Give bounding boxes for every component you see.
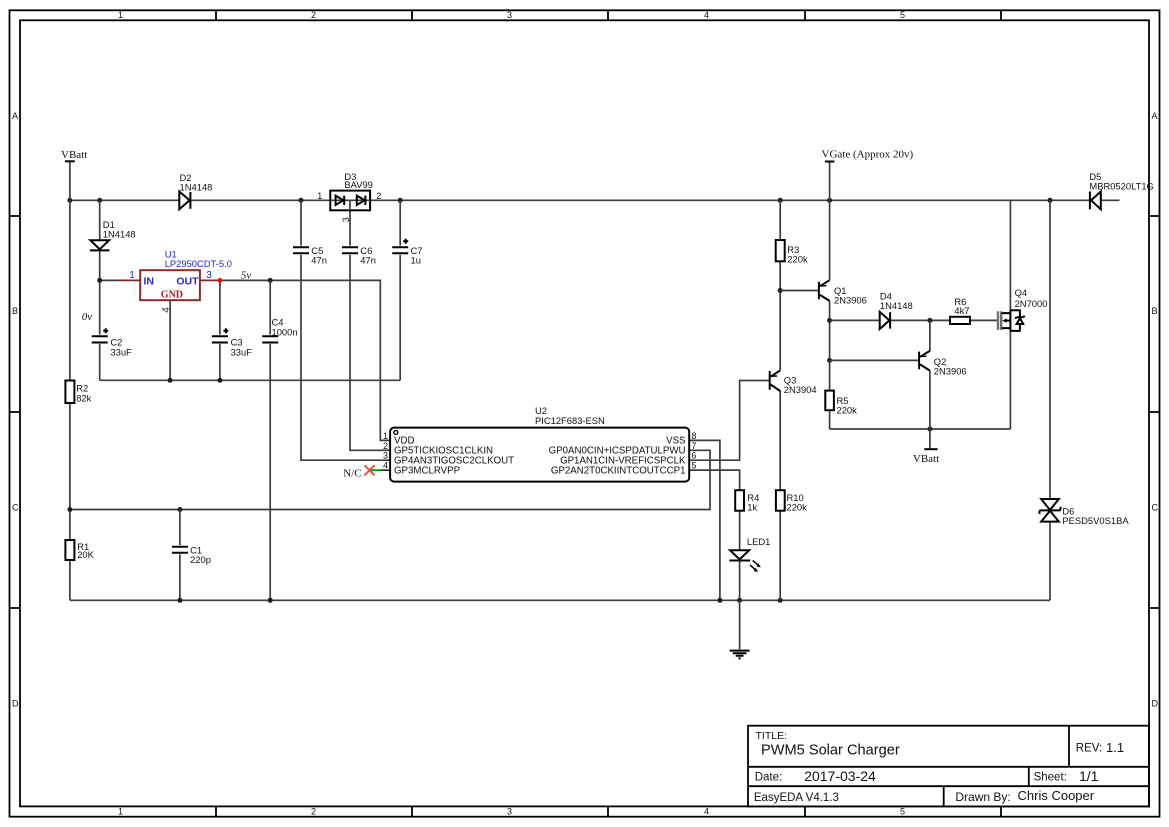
wire C7 branch <box>399 200 401 380</box>
svg-text:4: 4 <box>704 807 709 817</box>
wire C1 branch <box>179 510 181 601</box>
svg-text:2: 2 <box>311 10 316 20</box>
led LED1 <box>729 536 770 572</box>
svg-text:C: C <box>12 503 19 513</box>
wire C5 branch to U2 pin3 <box>301 200 390 460</box>
svg-text:Sheet:: Sheet: <box>1034 772 1067 784</box>
svg-text:1u: 1u <box>411 254 421 265</box>
svg-text:1: 1 <box>118 10 123 20</box>
svg-text:33uF: 33uF <box>231 346 253 357</box>
capacitor C7 1u <box>392 239 422 266</box>
wire Q4 drain riser <box>1009 200 1011 312</box>
wire U2 pin8 VSS drop <box>689 440 720 600</box>
svg-text:D: D <box>1152 699 1159 709</box>
svg-text:3: 3 <box>341 217 351 222</box>
resistor R1 20K <box>65 540 94 560</box>
wire VGate stem <box>829 162 831 201</box>
svg-text:6: 6 <box>691 451 696 461</box>
svg-text:TITLE:: TITLE: <box>756 730 788 742</box>
resistor R5 220k <box>825 391 857 416</box>
node Q2 base tap <box>827 358 832 363</box>
svg-text:8: 8 <box>691 431 696 441</box>
wire 0v mid rail <box>100 379 401 381</box>
node dots mid rail <box>168 378 223 383</box>
svg-text:VBatt: VBatt <box>61 149 87 161</box>
capacitor C6 47n <box>342 245 376 266</box>
svg-text:1: 1 <box>129 270 135 281</box>
wire Q1 base <box>780 290 819 292</box>
svg-text:1: 1 <box>317 191 322 201</box>
svg-text:1N4148: 1N4148 <box>103 229 136 240</box>
no-connect flag on U2 pin4 <box>365 466 390 475</box>
node dots bottom rail <box>177 598 782 603</box>
net flag VGate <box>822 149 914 162</box>
node C4 tap on 5v <box>268 278 273 283</box>
transistor Q3 2N3904 <box>770 370 817 394</box>
svg-text:C: C <box>1152 503 1159 513</box>
svg-text:IN: IN <box>144 275 155 287</box>
svg-text:VBatt: VBatt <box>913 453 939 465</box>
wire D1 branch <box>99 200 101 380</box>
svg-text:220k: 220k <box>787 501 808 512</box>
node Q2 emitter junction <box>927 318 932 323</box>
wire VBatt lower rail <box>830 428 1011 430</box>
svg-text:GP3MCLRVPP: GP3MCLRVPP <box>394 465 460 476</box>
svg-text:82k: 82k <box>76 392 91 403</box>
svg-text:4: 4 <box>704 10 709 20</box>
wire C3 branch <box>219 280 221 380</box>
resistor R6 4k7 <box>950 296 970 324</box>
resistor R4 1k <box>735 490 759 512</box>
svg-text:7: 7 <box>691 441 696 451</box>
svg-text:Date:: Date: <box>755 772 783 784</box>
IC U2 PIC12F683-ESN <box>383 405 696 482</box>
net flag VBatt bottom <box>913 449 939 465</box>
wire R4 to LED1 <box>739 511 741 550</box>
mosfet Q4 2N7000 <box>998 287 1047 331</box>
svg-text:2N3906: 2N3906 <box>934 366 967 377</box>
svg-text:BAV99: BAV99 <box>344 179 373 190</box>
svg-text:2: 2 <box>311 807 316 817</box>
svg-text:B: B <box>1152 306 1158 316</box>
wire left branch R2-R1 <box>69 200 71 600</box>
TITLEBLOCK <box>748 726 1149 807</box>
svg-text:5: 5 <box>691 461 696 471</box>
svg-text:1N4148: 1N4148 <box>180 181 213 192</box>
tvs diode D6 PESD5V0S1BA <box>1040 499 1130 526</box>
svg-text:1.1: 1.1 <box>1106 740 1124 755</box>
wire Q3 emitter to R10 to rail <box>779 391 781 600</box>
wire VBatt flag stem bottom <box>929 429 931 449</box>
svg-text:Q4: Q4 <box>1015 287 1028 298</box>
svg-text:MBR0520LT1G: MBR0520LT1G <box>1089 181 1153 192</box>
net flag VBatt top left <box>61 149 87 161</box>
svg-text:LED1: LED1 <box>747 536 770 547</box>
svg-text:Chris Cooper: Chris Cooper <box>1018 788 1095 803</box>
svg-text:2N3906: 2N3906 <box>834 294 867 305</box>
wire C6 branch to U2 pin2 <box>350 210 390 450</box>
wire R5 branch <box>829 360 831 429</box>
svg-text:2N7000: 2N7000 <box>1015 298 1048 309</box>
svg-text:A: A <box>12 111 18 121</box>
node junction dots on top rail <box>67 198 1052 203</box>
wire U1 input <box>100 279 121 281</box>
node D4 tap <box>827 318 832 323</box>
transistor Q2 2N3906 <box>919 351 967 377</box>
wire R6 to Q4 gate <box>970 319 997 321</box>
svg-text:3: 3 <box>383 451 388 461</box>
wire R3 branch <box>779 200 781 290</box>
svg-text:Drawn By:: Drawn By: <box>955 790 1010 804</box>
diode D4 1N4148 <box>880 290 913 329</box>
svg-text:1N4148: 1N4148 <box>880 300 913 311</box>
wire D6 branch <box>1049 200 1051 600</box>
wire D4 cathode to R6 <box>890 319 950 321</box>
svg-text:VGate (Approx 20v): VGate (Approx 20v) <box>822 149 914 161</box>
wire bottom ground rail <box>70 599 1050 601</box>
capacitor C2 33uF <box>92 328 132 357</box>
wire 5v net to U2 VDD <box>220 280 390 440</box>
svg-text:2N3904: 2N3904 <box>784 384 817 395</box>
svg-text:REV:: REV: <box>1076 742 1102 754</box>
wire Q3 collector riser <box>779 291 781 371</box>
svg-text:47n: 47n <box>360 254 376 265</box>
resistor R3 220k <box>776 240 808 264</box>
wire Q2 base <box>830 359 920 361</box>
svg-text:220k: 220k <box>837 405 858 416</box>
svg-text:1k: 1k <box>747 501 757 512</box>
svg-text:2: 2 <box>376 191 381 201</box>
PARTS <box>61 149 1154 659</box>
svg-text:N/C: N/C <box>343 467 361 479</box>
svg-text:5: 5 <box>900 807 905 817</box>
svg-text:2017-03-24: 2017-03-24 <box>804 768 876 784</box>
svg-text:220k: 220k <box>787 253 808 264</box>
ground symbol <box>730 651 750 659</box>
wire VBatt top rail <box>70 199 1120 201</box>
svg-text:0v: 0v <box>82 311 93 323</box>
diode pair D3 BAV99 <box>317 171 381 222</box>
svg-text:5: 5 <box>900 10 905 20</box>
capacitor C3 33uF <box>212 328 252 357</box>
svg-text:220p: 220p <box>190 554 211 565</box>
wire ground stub <box>739 600 741 650</box>
svg-text:PESD5V0S1BA: PESD5V0S1BA <box>1062 515 1129 526</box>
wire U2 pin6 to Q3 base <box>689 381 770 461</box>
svg-text:1: 1 <box>383 431 388 441</box>
capacitor C5 47n <box>293 245 327 266</box>
svg-text:EasyEDA V4.1.3: EasyEDA V4.1.3 <box>754 792 839 804</box>
wire U2 pin5 to R4 <box>689 470 739 490</box>
node dots pin7 net <box>67 507 182 512</box>
svg-text:4: 4 <box>383 461 388 471</box>
svg-text:3: 3 <box>507 807 512 817</box>
svg-text:3: 3 <box>206 270 212 281</box>
wire Q4 source drop <box>1009 329 1011 429</box>
wire VBatt flag stem left <box>69 161 71 200</box>
capacitor C4 1000n <box>262 316 297 342</box>
wire LED1 to ground rail <box>739 561 741 600</box>
node Q3/R3/Q1 base junction <box>778 288 783 293</box>
node VBatt flag tap <box>927 427 932 432</box>
svg-text:4k7: 4k7 <box>954 305 969 316</box>
resistor R10 220k <box>776 490 807 512</box>
svg-text:2: 2 <box>383 441 388 451</box>
svg-text:33uF: 33uF <box>110 346 132 357</box>
svg-text:D: D <box>12 699 19 709</box>
diode D5 MBR0520LT1G <box>1089 171 1153 209</box>
svg-text:1000n: 1000n <box>272 326 298 337</box>
transistor Q1 2N3906 <box>819 280 867 305</box>
svg-text:1: 1 <box>118 807 123 817</box>
wire C4 branch <box>269 280 271 600</box>
svg-text:3: 3 <box>507 10 512 20</box>
wire D4 anode <box>830 319 880 321</box>
svg-text:20K: 20K <box>77 549 94 560</box>
wire Q2 emitter riser <box>929 320 931 351</box>
svg-text:5v: 5v <box>241 269 252 281</box>
resistor R2 82k <box>65 381 91 404</box>
svg-text:LP2950CDT-5.0: LP2950CDT-5.0 <box>165 258 232 269</box>
svg-text:OUT: OUT <box>176 275 199 287</box>
node IN junction <box>97 278 102 283</box>
capacitor C1 220p <box>172 545 211 566</box>
svg-text:A: A <box>1152 111 1158 121</box>
wire Q1 collector to D4 node <box>829 301 831 361</box>
svg-text:B: B <box>12 306 18 316</box>
svg-text:GND: GND <box>161 290 183 301</box>
svg-text:47n: 47n <box>311 254 327 265</box>
wire Q2 collector drop <box>929 371 931 429</box>
svg-text:PWM5 Solar Charger: PWM5 Solar Charger <box>761 742 900 758</box>
svg-text:4: 4 <box>161 307 172 313</box>
svg-text:GP2AN2T0CKIINTCOUTCCP1: GP2AN2T0CKIINTCOUTCCP1 <box>551 465 686 476</box>
diode D1 1N4148 <box>90 219 136 250</box>
svg-text:PIC12F683-ESN: PIC12F683-ESN <box>535 415 605 426</box>
svg-text:1/1: 1/1 <box>1079 768 1099 784</box>
wire U2 pin7 long return <box>70 450 710 509</box>
wire Q1 emitter riser <box>829 200 831 280</box>
diode D2 1N4148 <box>179 172 212 210</box>
wire U1 GND pin4 drop <box>169 300 171 380</box>
regulator U1 LP2950CDT-5.0 <box>120 249 232 313</box>
